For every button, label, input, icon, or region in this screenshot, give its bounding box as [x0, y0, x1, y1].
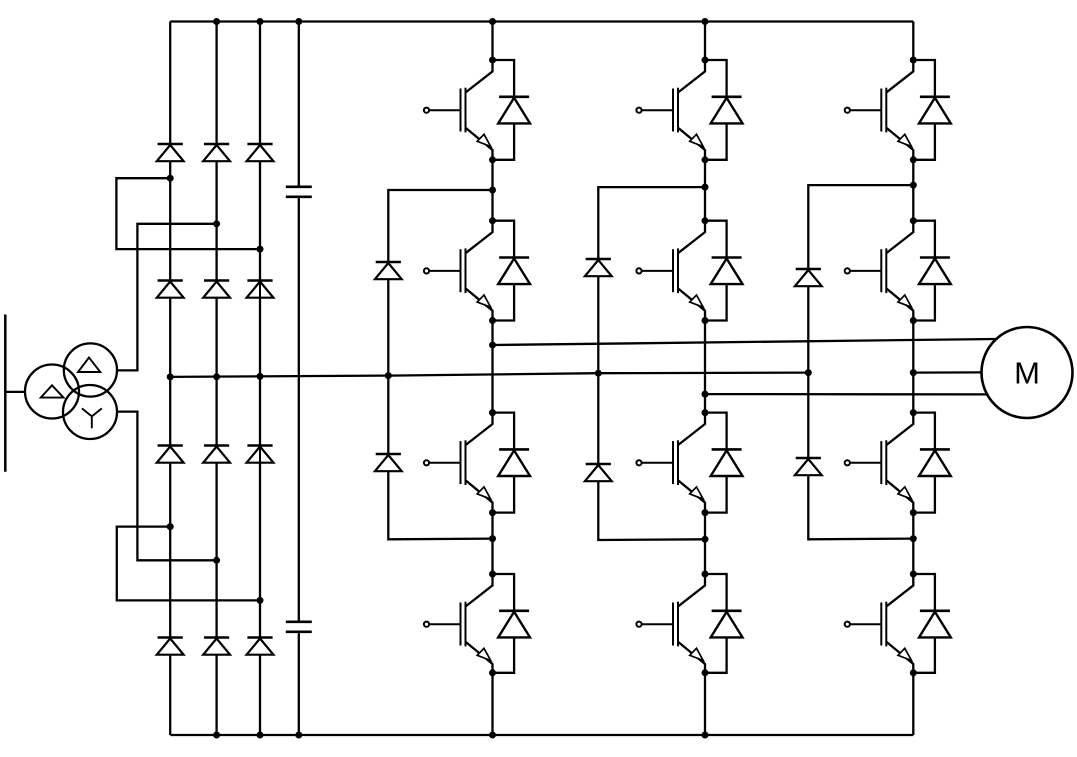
wire leg 1 clamp lower branch — [388, 471, 492, 539]
freewheel diode leg 1 bottom outer — [493, 574, 531, 673]
wire leg 2 clamp upper branch — [598, 187, 705, 258]
transistor IGBT leg 2 top outer — [636, 60, 705, 160]
rectifier diode lower bridge top phase 3 — [247, 446, 274, 463]
transistor IGBT leg 1 bottom inner — [424, 413, 493, 513]
node leg 2 cell 2 terminals — [702, 217, 709, 324]
wire upper bridge link A — [116, 178, 260, 249]
node leg 3 phase output — [910, 369, 917, 376]
transformer primary winding (delta) — [25, 365, 79, 419]
freewheel diode leg 1 bottom inner — [493, 413, 531, 513]
wire transformer primary lead — [5, 391, 25, 393]
node leg 1 cell 2 terminals — [489, 217, 496, 324]
clamp diode leg 2 lower — [585, 464, 612, 481]
freewheel diode leg 3 bottom outer — [913, 574, 951, 673]
transistor IGBT leg 3 top outer — [845, 60, 914, 160]
rectifier diode lower bridge bottom phase 2 — [203, 638, 230, 655]
rectifier diode lower bridge bottom phase 3 — [247, 638, 274, 655]
freewheel diode leg 2 top outer — [705, 60, 743, 160]
transistor IGBT leg 3 bottom inner — [845, 413, 914, 513]
transistor IGBT leg 1 bottom outer — [424, 574, 493, 673]
wire leg 1 clamp column middle — [387, 279, 389, 453]
freewheel diode leg 1 top inner — [493, 221, 531, 321]
node leg 3 clamp junctions — [910, 182, 917, 542]
freewheel diode leg 2 bottom inner — [705, 413, 743, 513]
node leg 2 cell 3 terminals — [702, 409, 709, 516]
node lower bridge feed junction — [213, 557, 220, 564]
wire over diode — [259, 447, 261, 463]
wire lower bridge link C — [117, 527, 260, 601]
clamp diode leg 1 lower — [375, 454, 402, 471]
node leg 1 phase output — [489, 342, 496, 349]
transistor IGBT leg 2 bottom inner — [636, 413, 705, 513]
rectifier diode upper bridge bottom phase 1 — [157, 281, 184, 298]
node loop A junctions — [167, 175, 264, 253]
svg-text:M: M — [1014, 356, 1040, 391]
supply bus bar — [4, 315, 7, 472]
node leg 1 cell 1 terminals — [489, 57, 496, 164]
rectifier diode lower bridge top phase 2 — [203, 446, 230, 463]
node loop C junctions — [167, 523, 264, 604]
node leg 3 cell 2 terminals — [910, 217, 917, 324]
wire inverter leg 2 vertical — [704, 22, 706, 736]
wire leg 3 clamp column middle — [807, 286, 809, 457]
node leg 1 cell 4 terminals — [489, 571, 496, 677]
rectifier diode upper bridge top phase 1 — [157, 144, 184, 161]
node DC+ junction dots on top bus — [213, 18, 708, 25]
wire inverter leg 3 vertical — [912, 22, 914, 736]
wire rectifier column 2 — [215, 22, 217, 736]
wire rectifier column 1 — [169, 22, 171, 736]
rectifier diode lower bridge top phase 1 — [157, 446, 184, 463]
freewheel diode leg 2 bottom outer — [705, 574, 743, 673]
node leg 2 phase output — [702, 391, 709, 398]
node leg 2 clamp junctions — [702, 184, 709, 543]
wire phase U output — [493, 339, 997, 345]
freewheel diode leg 3 bottom inner — [913, 413, 951, 513]
transistor IGBT leg 1 top outer — [424, 60, 493, 160]
wire DC- bottom bus — [170, 734, 913, 736]
wire phase V output — [705, 393, 988, 396]
rectifier diode upper bridge bottom phase 3 — [247, 281, 274, 298]
clamp diode leg 3 lower — [795, 458, 822, 475]
wire leg 1 clamp upper branch — [388, 190, 492, 261]
capacitor C1 (upper DC link) — [286, 187, 312, 197]
node DC- junction dots on bottom bus — [213, 732, 708, 739]
wire delta secondary to upper bridge — [117, 224, 217, 371]
node leg 3 cell 3 terminals — [910, 409, 917, 516]
transistor IGBT leg 3 bottom outer — [845, 574, 914, 673]
wire DC-link capacitor column — [298, 22, 300, 736]
node upper bridge feed junction — [213, 220, 220, 227]
clamp diode leg 2 upper — [585, 259, 612, 276]
transistor IGBT leg 2 top inner — [636, 221, 705, 321]
wire leg 3 clamp lower branch — [808, 475, 913, 539]
rectifier diode lower bridge bottom phase 1 — [157, 638, 184, 655]
freewheel diode leg 1 top outer — [493, 60, 531, 160]
wire wye secondary to lower bridge — [117, 412, 217, 561]
wire leg 3 clamp upper branch — [808, 185, 913, 268]
node leg 2 cell 1 terminals — [702, 57, 709, 164]
node leg 1 cell 3 terminals — [489, 409, 496, 516]
clamp diode leg 3 upper — [795, 269, 822, 286]
wire neutral midpoint bus — [170, 373, 808, 377]
wire leg 2 clamp column middle — [597, 276, 599, 463]
transistor IGBT leg 3 top inner — [845, 221, 914, 321]
transistor IGBT leg 2 bottom outer — [636, 574, 705, 673]
node leg 3 cell 4 terminals — [910, 571, 917, 677]
capacitor C2 (lower DC link) — [286, 622, 312, 632]
transformer secondary winding 2 (wye) — [63, 385, 117, 439]
wire phase W output — [913, 371, 981, 374]
wire leg 2 clamp lower branch — [598, 481, 705, 540]
node leg 3 cell 1 terminals — [910, 57, 917, 164]
transformer secondary winding 1 (delta) — [64, 343, 117, 396]
freewheel diode leg 3 top inner — [913, 221, 951, 321]
node leg 1 clamp junctions — [489, 187, 496, 543]
wire over diode — [259, 282, 261, 298]
clamp diode leg 1 upper — [375, 262, 402, 279]
wire inverter leg 1 vertical — [491, 22, 493, 736]
node neutral junction dots — [167, 369, 812, 380]
wire DC+ top bus — [170, 20, 913, 22]
freewheel diode leg 2 top inner — [705, 221, 743, 321]
transistor IGBT leg 1 top inner — [424, 221, 493, 321]
rectifier diode upper bridge top phase 2 — [203, 144, 230, 161]
node leg 2 cell 4 terminals — [702, 571, 709, 677]
rectifier diode upper bridge bottom phase 2 — [203, 281, 230, 298]
wire rectifier column 3 — [259, 22, 261, 736]
rectifier diode upper bridge top phase 3 — [247, 144, 274, 161]
motor M — [982, 327, 1073, 418]
freewheel diode leg 3 top outer — [913, 60, 951, 160]
